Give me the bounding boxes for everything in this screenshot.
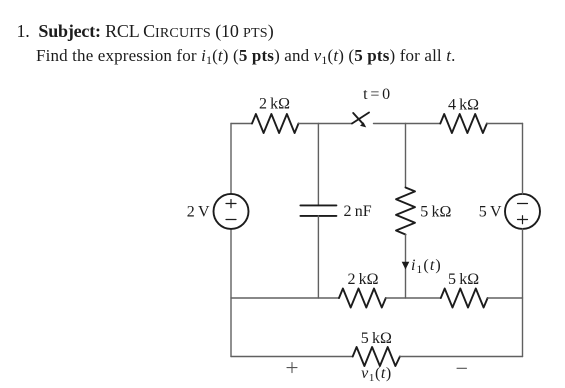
wire capacitor top: [317, 124, 319, 206]
current arrow i1(t): [402, 262, 410, 270]
svg-text:5 kΩ: 5 kΩ: [448, 271, 479, 288]
svg-text:t = 0: t = 0: [363, 86, 391, 103]
wire top-right: [487, 123, 523, 125]
capacitor 2nF: [300, 205, 336, 216]
wire top-middle: [299, 123, 353, 125]
wire middle-right: [488, 297, 523, 299]
wire right vertical (5V branch): [522, 124, 524, 357]
svg-text:v1(t): v1(t): [361, 365, 392, 384]
svg-text:2 V: 2 V: [187, 204, 210, 221]
svg-text:5 kΩ: 5 kΩ: [361, 330, 392, 347]
polarity minus bottom: [457, 367, 467, 369]
wire middle-center: [386, 297, 441, 299]
svg-text:5 kΩ: 5 kΩ: [420, 204, 451, 221]
wire middle-left: [231, 297, 339, 299]
voltage source 2V: [214, 194, 249, 229]
svg-text:5 V: 5 V: [479, 204, 502, 221]
resistor 5kOhm middle: [441, 289, 488, 308]
wire 5k branch bottom with current arrow: [405, 235, 407, 299]
heading line 1: [17, 22, 274, 40]
resistor 5kOhm vertical: [396, 188, 415, 235]
svg-text:2 nF: 2 nF: [344, 203, 372, 220]
wire top-left: [231, 123, 252, 125]
switch t=0: [352, 113, 369, 128]
wire top switch-right: [374, 123, 441, 125]
wire bottom-left: [231, 356, 353, 358]
voltage source 5V: [505, 194, 540, 229]
svg-text:2 kΩ: 2 kΩ: [259, 96, 290, 113]
wire left vertical (2V branch): [230, 124, 232, 357]
polarity plus bottom: [287, 363, 297, 373]
wire bottom-right: [400, 356, 523, 358]
resistor 2kOhm middle: [339, 289, 386, 308]
resistor 4kOhm top: [440, 114, 487, 133]
svg-text:4 kΩ: 4 kΩ: [448, 97, 479, 114]
resistor 5kOhm bottom: [353, 347, 400, 366]
resistor 2kOhm top: [252, 114, 299, 133]
wire capacitor bottom: [317, 216, 319, 298]
svg-text:2 kΩ: 2 kΩ: [347, 271, 378, 288]
wire 5k branch top: [405, 124, 407, 188]
heading line 2: [36, 47, 456, 66]
svg-text:i1(t): i1(t): [411, 257, 442, 276]
